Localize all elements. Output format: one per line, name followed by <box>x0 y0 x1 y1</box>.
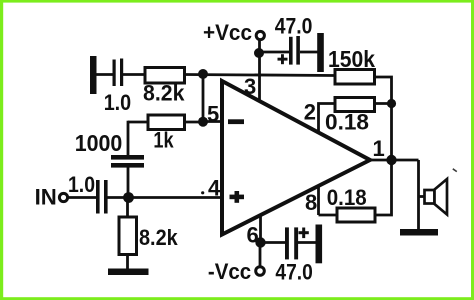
svg-text:+Vcc: +Vcc <box>203 20 252 45</box>
svg-text:1: 1 <box>373 136 385 161</box>
svg-text:0.18: 0.18 <box>327 185 367 210</box>
svg-text:0.18: 0.18 <box>325 110 369 135</box>
svg-text:47.0: 47.0 <box>275 14 313 39</box>
svg-text:3: 3 <box>244 74 256 99</box>
svg-text:8.2k: 8.2k <box>143 81 185 106</box>
svg-text:6: 6 <box>247 223 259 248</box>
svg-text:2: 2 <box>304 100 316 125</box>
svg-text:1k: 1k <box>153 128 174 153</box>
svg-text:150k: 150k <box>328 46 376 72</box>
svg-text:8: 8 <box>305 190 317 215</box>
svg-text:1.0: 1.0 <box>104 90 132 115</box>
svg-text:8.2k: 8.2k <box>139 225 178 250</box>
svg-text:5: 5 <box>207 102 219 127</box>
svg-text:IN: IN <box>35 185 57 210</box>
svg-text:1.0: 1.0 <box>68 172 95 197</box>
svg-text:1000: 1000 <box>75 130 123 156</box>
svg-text:47.0: 47.0 <box>275 259 312 284</box>
svg-text:-Vcc: -Vcc <box>208 259 251 284</box>
svg-text:4: 4 <box>208 175 221 200</box>
